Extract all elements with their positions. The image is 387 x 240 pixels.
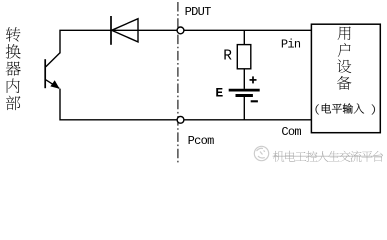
transistor emitter arrow <box>50 80 59 89</box>
terminal circle Pcom <box>177 116 184 123</box>
svg-text:R: R <box>223 48 232 64</box>
svg-text:Pcom: Pcom <box>188 134 215 148</box>
svg-text:Pin: Pin <box>281 37 301 51</box>
label left char 器 <box>6 61 21 75</box>
resistor R lead bottom <box>243 69 245 89</box>
svg-text:PDUT: PDUT <box>185 5 212 19</box>
label left char 换 <box>6 44 21 59</box>
box label char 备 <box>337 76 351 90</box>
svg-text:Com: Com <box>281 125 301 139</box>
battery minus sign <box>251 100 258 102</box>
dash-dot boundary line <box>177 2 179 164</box>
watermark strike line <box>273 155 382 157</box>
transistor emitter diagonal <box>46 80 59 89</box>
wire collector up <box>60 30 177 53</box>
wire bottom right to box <box>184 119 312 121</box>
box label (电平输入) <box>316 104 319 114</box>
box label char 设 <box>337 59 351 73</box>
watermark logo <box>254 146 268 160</box>
wire top right to box <box>184 29 312 31</box>
battery E plate long <box>229 89 260 92</box>
diode triangle <box>112 19 138 42</box>
label left char 转 <box>6 27 21 42</box>
wire emitter down <box>60 89 177 120</box>
user equipment box <box>311 24 380 133</box>
diode cathode bar <box>110 16 112 45</box>
battery plus sign <box>250 76 257 83</box>
resistor R lead top <box>243 30 245 44</box>
terminal circle PDUT <box>177 27 184 34</box>
battery E plate short <box>236 94 253 97</box>
transistor collector diagonal <box>46 53 60 67</box>
transistor Q1 <box>45 53 60 89</box>
resistor R body <box>237 45 251 69</box>
box label char 用 <box>338 26 351 39</box>
label left char 部 <box>6 96 21 111</box>
transistor base bar <box>44 59 46 88</box>
box label char 户 <box>338 43 351 57</box>
svg-text:E: E <box>215 85 223 100</box>
label left char 内 <box>7 79 20 93</box>
watermark text 机电工控人生交流平台 <box>273 151 284 162</box>
battery E lead bottom <box>243 97 245 120</box>
